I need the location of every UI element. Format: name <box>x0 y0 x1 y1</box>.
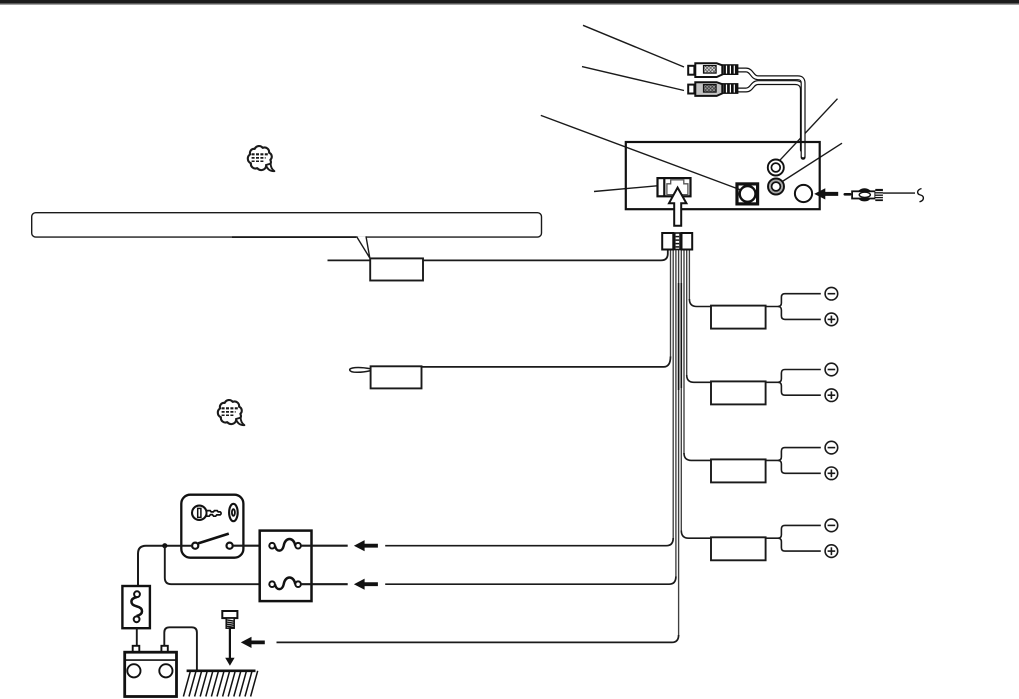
antenna plug <box>844 188 883 201</box>
wire: switch to fuse box <box>233 545 260 547</box>
keyhole <box>229 504 238 521</box>
ISO harness socket <box>658 178 691 196</box>
mounting bolt <box>222 611 237 618</box>
pigtail loop on ignition wire <box>350 368 371 373</box>
note icon 1 <box>248 146 275 171</box>
battery <box>125 652 177 696</box>
speaker group 4 <box>766 525 821 551</box>
upper RCA plug ridges <box>722 65 737 75</box>
fuse 2 <box>269 577 301 589</box>
plus terminal 1 <box>825 313 838 326</box>
wire: switch to fuse holder <box>138 546 192 586</box>
ignition switch box <box>181 495 243 558</box>
DIN antenna socket <box>737 184 758 204</box>
label box (ignition wire) <box>371 366 422 388</box>
wire: power lead through upper fuse <box>385 538 673 546</box>
wire: fuse holder to battery <box>136 628 138 646</box>
antenna input jack <box>795 185 812 202</box>
fuse holder <box>122 586 149 628</box>
wire: ignition lead with pigtail loop <box>422 357 671 367</box>
wire: speaker 3 lead <box>684 453 711 460</box>
arrow into antenna jack <box>814 188 838 199</box>
upper RCA plug <box>688 63 722 77</box>
minus terminal 3 <box>825 441 838 454</box>
leader to upper RCA plug <box>583 25 684 67</box>
wire: speaker 1 lead <box>689 299 711 307</box>
bolt arrow to ground <box>229 628 231 659</box>
callout box <box>32 213 542 237</box>
fuse in holder <box>131 591 142 622</box>
speaker group 2 <box>766 370 821 396</box>
leader to DIN antenna socket <box>541 115 741 190</box>
lower RCA plug <box>688 82 722 96</box>
leader to ISO harness socket <box>594 186 657 192</box>
wire: fuse2 to arrow <box>301 583 348 585</box>
plus terminal 3 <box>825 467 838 480</box>
lower preout jack <box>768 179 784 195</box>
leader to upper preout jack <box>780 99 838 161</box>
key icon <box>192 506 221 520</box>
harness bundle lines <box>671 250 690 637</box>
plus terminal 4 <box>825 545 838 558</box>
upper preout jack <box>768 160 784 176</box>
arrow on power lead <box>354 540 378 551</box>
leader to lower preout jack <box>782 143 842 181</box>
plus terminal 2 <box>825 389 838 402</box>
arrow on battery lead <box>354 579 378 590</box>
battery terminals <box>133 646 140 652</box>
minus terminal 1 <box>825 287 838 300</box>
arrow on ground lead <box>241 637 265 648</box>
wire: battery lead through lower fuse <box>385 577 676 585</box>
wire: junction to lower fuse <box>165 546 260 585</box>
wire: fuse1 to arrow <box>301 545 348 547</box>
RCA cable (upper plug) <box>739 70 804 157</box>
hollow arrow into ISO socket <box>669 188 686 226</box>
junction dot <box>162 543 167 548</box>
wire: accessory lead to label box (left) <box>328 250 668 261</box>
lower RCA plug ridges <box>722 84 737 94</box>
head unit rear panel <box>626 142 820 209</box>
harness connector <box>662 233 692 250</box>
switch contacts and lever <box>192 543 198 549</box>
dark loom segment in bundle <box>678 283 680 390</box>
wire: speaker 2 lead <box>687 375 711 382</box>
RCA cable (lower plug) <box>739 83 803 150</box>
wire: speaker 4 lead <box>681 531 711 539</box>
speaker group 3 <box>766 448 821 474</box>
fuse box <box>260 531 312 602</box>
speaker group 1 <box>766 294 821 320</box>
wire: battery to ground <box>164 627 197 671</box>
antenna wire with break squiggle <box>883 192 915 194</box>
top black banner bar <box>0 0 1019 4</box>
ground symbol <box>187 669 256 672</box>
minus terminal 4 <box>825 519 838 532</box>
note icon 2 <box>218 400 245 425</box>
fuse 1 <box>269 539 301 551</box>
wire: ground lead <box>277 635 679 642</box>
leader to lower RCA plug <box>582 67 684 91</box>
callout tail <box>357 236 370 258</box>
label box (accessory wire) <box>370 258 423 280</box>
minus terminal 2 <box>825 363 838 376</box>
